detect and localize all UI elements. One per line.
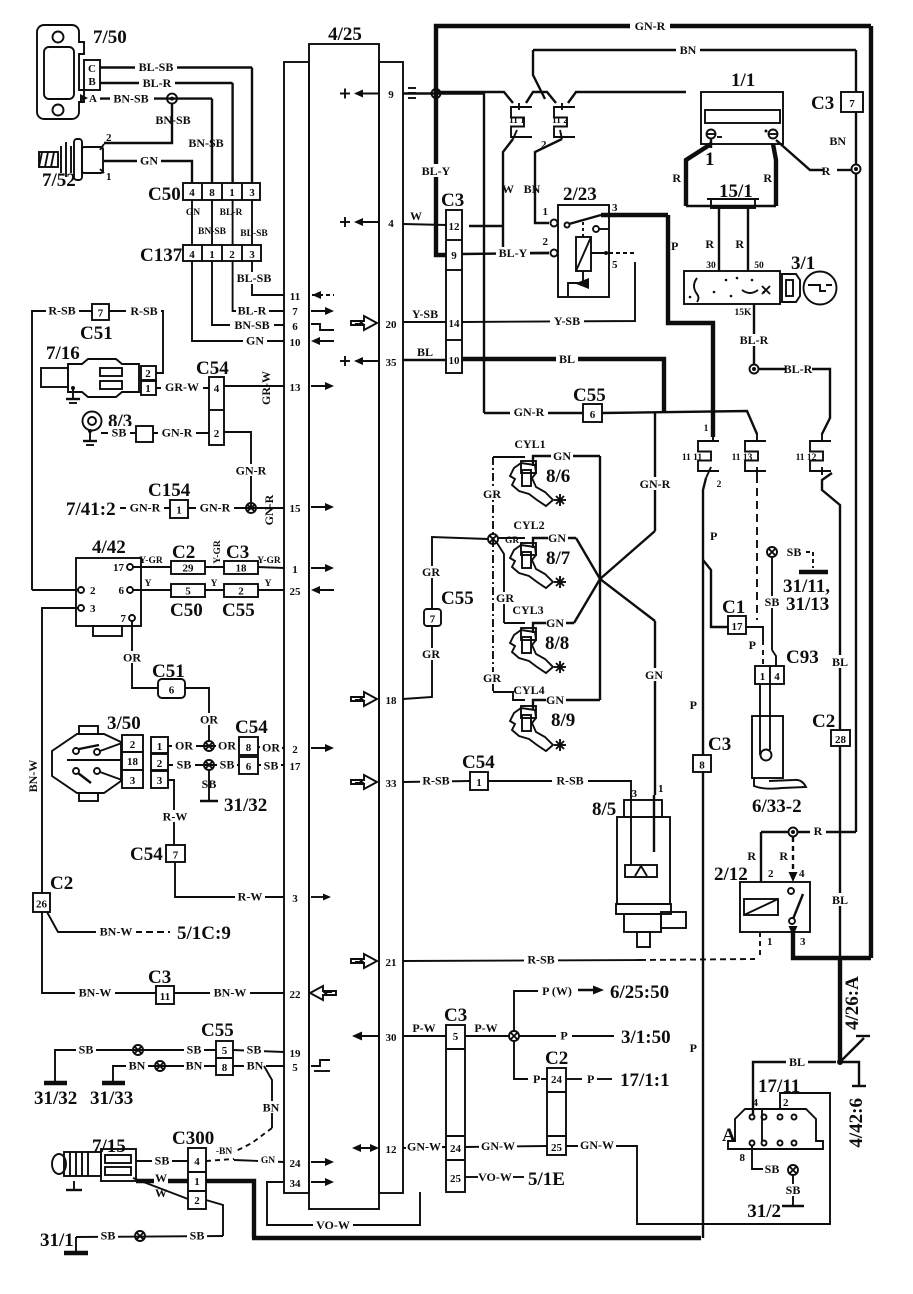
ECU 4/25 control unit inner box: [309, 44, 379, 1209]
svg-text:CYL2: CYL2: [513, 518, 544, 532]
svg-text:SB: SB: [247, 1043, 262, 1057]
svg-text:P: P: [690, 698, 697, 712]
svg-text:CYL4: CYL4: [513, 683, 544, 697]
connector C51 pin 7: [92, 304, 109, 320]
svg-text:C137: C137: [140, 245, 183, 266]
svg-text:SB: SB: [786, 1183, 801, 1197]
svg-text:CYL1: CYL1: [514, 437, 545, 451]
wire BN-W stub to 5/1C:9: [47, 912, 102, 932]
wire R-SB row with C51:7: [32, 311, 92, 590]
splice box: [136, 426, 153, 442]
svg-text:26: 26: [36, 899, 48, 911]
wire BL-R 7/50:B: [100, 82, 233, 84]
svg-text:1: 1: [292, 564, 298, 576]
svg-text:BL-Y: BL-Y: [499, 246, 528, 260]
svg-text:2: 2: [214, 428, 220, 440]
wire SB 7/15 to C300:4: [136, 1160, 188, 1162]
svg-text:GR: GR: [483, 487, 501, 501]
svg-text:C2: C2: [812, 711, 835, 732]
svg-text:31/1: 31/1: [40, 1230, 74, 1251]
svg-text:BL-R: BL-R: [238, 304, 267, 318]
svg-text:7: 7: [849, 98, 855, 110]
wire W 7/15 to C300:1: [136, 1179, 188, 1183]
wire BN-W down to C3:11 row: [42, 912, 156, 993]
connector C54 pin 8: [239, 737, 258, 755]
svg-text:33: 33: [386, 778, 398, 790]
antenna amplifier 6/33-2: [752, 684, 806, 789]
svg-text:3/50: 3/50: [107, 713, 141, 734]
wire SB to pin 17: [258, 764, 284, 766]
junction dot BN/R: [852, 165, 861, 174]
svg-text:12: 12: [386, 1144, 398, 1156]
svg-text:SB: SB: [787, 545, 802, 559]
svg-text:GN: GN: [261, 1156, 275, 1166]
wire GN-R main feed (top): [436, 26, 871, 98]
svg-text:7: 7: [430, 614, 436, 626]
wire P 2/23:3 down: [668, 215, 713, 437]
wire W thick C300:1 to bottom trunk: [206, 1181, 254, 1238]
7/50 terminal block C/B/A: [80, 60, 100, 105]
wires into C50 from above: [251, 68, 253, 184]
sensor 8/3: [83, 412, 102, 431]
svg-text:8/5: 8/5: [592, 799, 616, 820]
wire GN-R row through C55:6: [484, 412, 583, 414]
splice GR: [488, 534, 498, 544]
svg-text:24: 24: [450, 1143, 462, 1155]
svg-text:C55: C55: [222, 600, 255, 621]
svg-text:Y: Y: [211, 579, 218, 589]
svg-text:C3: C3: [444, 1005, 467, 1026]
svg-text:BL-R: BL-R: [740, 333, 769, 347]
connector C54 (4/2): [209, 377, 224, 445]
svg-text:SB: SB: [101, 1229, 116, 1243]
svg-text:OR: OR: [200, 713, 218, 727]
svg-text:11 2: 11 2: [552, 116, 568, 126]
svg-text:29: 29: [183, 563, 195, 575]
svg-text:GN-R: GN-R: [262, 494, 276, 525]
svg-text:2/23: 2/23: [563, 184, 597, 205]
wire BL down to junction: [838, 959, 842, 1062]
svg-text:C3: C3: [811, 93, 834, 114]
svg-text:GN: GN: [553, 449, 571, 463]
svg-text:C50: C50: [170, 600, 203, 621]
svg-text:34: 34: [290, 1178, 302, 1190]
wire SB splice down to ground 31/32: [208, 770, 210, 801]
splice SB / ground 31/11 31/13: [767, 547, 777, 557]
svg-text:R-SB: R-SB: [422, 774, 449, 788]
svg-text:P-W: P-W: [474, 1021, 497, 1035]
svg-text:3: 3: [612, 202, 618, 214]
svg-text:C3: C3: [708, 734, 731, 755]
svg-text:8/9: 8/9: [551, 710, 575, 731]
svg-text:GN: GN: [546, 616, 564, 630]
svg-text:20: 20: [386, 319, 398, 331]
wire BL-R to fuse 11/12: [758, 368, 785, 370]
wire drop to 7/52 pin 2: [104, 104, 172, 143]
svg-text:P (W): P (W): [542, 984, 572, 998]
svg-text:-BN: -BN: [216, 1147, 233, 1157]
wire R to 2/12:2: [760, 832, 762, 882]
connector C3 pin 18: [224, 561, 258, 574]
svg-text:OR: OR: [123, 651, 141, 665]
connector C3 pin 11: [156, 986, 174, 1004]
wire P through fuse 11/11 down: [703, 478, 706, 755]
svg-text:1: 1: [157, 741, 163, 753]
wire SB row 3/50:2 to C54:6: [168, 764, 239, 766]
svg-text:GN-R: GN-R: [162, 426, 193, 440]
svg-text:2: 2: [130, 739, 136, 751]
svg-text:22: 22: [290, 989, 302, 1001]
svg-text:9: 9: [451, 250, 457, 262]
svg-text:R-SB: R-SB: [527, 953, 554, 967]
svg-text:5: 5: [292, 1062, 298, 1074]
svg-text:1: 1: [209, 249, 215, 261]
svg-text:18: 18: [236, 563, 248, 575]
svg-text:19: 19: [290, 1048, 302, 1060]
svg-text:GN: GN: [645, 668, 663, 682]
wire GN-R right edge down: [869, 26, 873, 958]
battery 1/1: [701, 70, 783, 170]
svg-text:10: 10: [449, 355, 461, 367]
svg-text:30: 30: [386, 1032, 398, 1044]
svg-text:BL: BL: [832, 893, 848, 907]
wire R down right side to 2/12: [855, 173, 857, 832]
svg-text:10: 10: [290, 337, 302, 349]
svg-text:C50: C50: [148, 184, 181, 205]
connector C1 pin 17: [728, 616, 746, 634]
wire BL C2:28 down: [839, 746, 841, 959]
svg-text:3: 3: [249, 187, 255, 199]
fuse 11/13: [732, 433, 766, 475]
connector C55 pin 2: [224, 584, 258, 597]
svg-text:2: 2: [543, 236, 549, 248]
sensor 7/52: [39, 132, 112, 183]
wire between C2:29 and C3:18: [205, 566, 224, 568]
wire R-SB pin33 row: [403, 781, 470, 782]
svg-text:GR: GR: [483, 671, 501, 685]
svg-text:P: P: [749, 638, 756, 652]
svg-text:4: 4: [799, 868, 805, 880]
svg-text:BL-R: BL-R: [143, 76, 172, 90]
svg-text:P: P: [533, 1072, 540, 1086]
svg-text:BL-SB: BL-SB: [237, 271, 272, 285]
svg-text:1: 1: [705, 149, 715, 170]
svg-text:17/1:1: 17/1:1: [620, 1070, 670, 1091]
svg-text:GR: GR: [422, 647, 440, 661]
svg-text:28: 28: [835, 734, 847, 746]
svg-text:Y-GR: Y-GR: [139, 556, 163, 566]
svg-text:P: P: [710, 529, 717, 543]
connector C50 pin 5: [171, 584, 205, 597]
svg-text:24: 24: [551, 1074, 563, 1086]
svg-text:13: 13: [290, 382, 302, 394]
fuse 11/12: [796, 433, 831, 475]
svg-text:1: 1: [543, 206, 549, 218]
wire Y-GR 4/42:17 to C2:29: [133, 566, 171, 568]
relay 2/12: [714, 864, 810, 948]
svg-text:2: 2: [106, 132, 112, 144]
svg-text:Y-GR: Y-GR: [257, 556, 281, 566]
svg-text:GN: GN: [548, 531, 566, 545]
svg-text:31/13: 31/13: [786, 594, 829, 615]
svg-text:5: 5: [612, 259, 618, 271]
svg-text:50: 50: [754, 261, 764, 271]
wire SB 8/3: [101, 432, 136, 434]
wire 2/12:1 dashed down: [759, 932, 761, 958]
svg-text:R: R: [779, 849, 788, 863]
svg-text:A: A: [89, 93, 97, 105]
wire P-W C3:5 to splice: [465, 1035, 509, 1037]
svg-text:4: 4: [194, 1156, 200, 1168]
svg-text:VO-W: VO-W: [316, 1218, 350, 1232]
svg-text:W: W: [155, 1171, 167, 1185]
wire P(W) to 6/25:50: [514, 991, 538, 1031]
svg-text:5: 5: [453, 1031, 459, 1043]
svg-text:6/33-2: 6/33-2: [752, 796, 802, 817]
wire GN-W C2:25 loop to 17/11:2: [566, 1093, 830, 1224]
svg-text:1: 1: [176, 505, 182, 517]
svg-text:BN: BN: [263, 1101, 280, 1115]
svg-text:SB: SB: [190, 1229, 205, 1243]
svg-text:8/7: 8/7: [546, 548, 571, 569]
wire GN to coil 8/5 pin1: [654, 621, 656, 795]
wire R dashed to 2/12:4: [792, 837, 794, 872]
svg-text:3: 3: [800, 936, 806, 948]
svg-text:C3: C3: [441, 190, 464, 211]
connector C54 pin 7: [166, 845, 185, 862]
svg-text:GR: GR: [496, 591, 514, 605]
svg-text:21: 21: [386, 957, 397, 969]
pointer 4/42:6: [840, 1062, 859, 1085]
svg-text:9: 9: [388, 89, 394, 101]
connector C93: [755, 666, 784, 684]
svg-text:4: 4: [774, 671, 780, 683]
wire Y-SB pin20 to C3:14: [403, 321, 446, 323]
svg-text:SB: SB: [765, 595, 780, 609]
svg-text:7: 7: [292, 306, 298, 318]
svg-text:GN-W: GN-W: [407, 1140, 441, 1154]
svg-text:BN: BN: [524, 182, 541, 196]
svg-text:1: 1: [767, 936, 773, 948]
svg-text:4/26:A: 4/26:A: [842, 976, 863, 1030]
connector C3 pin 7: [841, 92, 863, 112]
svg-text:R: R: [705, 237, 714, 251]
svg-text:A: A: [722, 1125, 736, 1146]
throttle switch 3/50: [52, 713, 168, 801]
splice on GN-R: [246, 503, 256, 513]
svg-text:35: 35: [386, 357, 398, 369]
svg-text:C2: C2: [172, 542, 195, 563]
wire pin9 to GN-R branch: [403, 94, 484, 414]
fuse 11/13 lead down: [756, 475, 758, 620]
wire VO-W C3:25 to 5/1E: [465, 1176, 478, 1178]
svg-text:31/33: 31/33: [90, 1088, 133, 1109]
wire GN-R to C154: [120, 507, 170, 509]
svg-text:12: 12: [449, 221, 461, 233]
svg-text:C93: C93: [786, 647, 819, 668]
wire 4/42:2 to R-SB vertical: [32, 589, 78, 591]
connector C2 bottom: [545, 1048, 568, 1155]
svg-text:BL: BL: [789, 1055, 805, 1069]
splice junction on BN-SB: [167, 94, 177, 104]
svg-text:4: 4: [388, 218, 394, 230]
svg-text:1: 1: [658, 783, 664, 795]
wire SB 17/11:8 to ground 31/2: [752, 1146, 763, 1169]
svg-text:1: 1: [229, 187, 235, 199]
svg-text:4/42: 4/42: [92, 537, 126, 558]
svg-text:17/11: 17/11: [758, 1076, 800, 1097]
svg-text:8: 8: [222, 1062, 228, 1074]
svg-text:BN-W: BN-W: [26, 760, 40, 793]
connector C50: [183, 183, 260, 200]
svg-text:GR: GR: [422, 565, 440, 579]
svg-text:7: 7: [121, 613, 127, 625]
svg-text:8/6: 8/6: [546, 466, 570, 487]
wire BN from top to junction: [855, 50, 857, 92]
svg-text:11: 11: [160, 991, 170, 1003]
svg-text:GN-R: GN-R: [130, 501, 161, 515]
svg-text:18: 18: [127, 756, 139, 768]
svg-text:8: 8: [246, 742, 252, 754]
svg-text:7/16: 7/16: [46, 343, 80, 364]
wire 4/42:3 BN-W down: [42, 608, 78, 893]
svg-text:11: 11: [290, 291, 300, 303]
svg-text:C55: C55: [573, 385, 606, 406]
svg-text:25: 25: [290, 586, 302, 598]
svg-text:GN: GN: [140, 154, 158, 168]
svg-text:Y-GR: Y-GR: [213, 540, 223, 564]
svg-text:OR: OR: [175, 739, 193, 753]
svg-text:17: 17: [113, 562, 125, 574]
svg-text:11 1: 11 1: [509, 116, 525, 126]
svg-text:6: 6: [119, 585, 125, 597]
svg-text:31/32: 31/32: [34, 1088, 77, 1109]
wire OR C51:6 down to splice: [185, 688, 209, 741]
svg-text:SB: SB: [264, 759, 279, 773]
svg-text:31/32: 31/32: [224, 795, 267, 816]
svg-text:BL-SB: BL-SB: [139, 60, 174, 74]
ground 31/33: [102, 1081, 125, 1085]
svg-text:GN-R: GN-R: [236, 464, 267, 478]
svg-text:SB: SB: [112, 426, 127, 440]
wire OR row 3/50:1 to C54:8: [168, 745, 239, 747]
X junction of GN wires: [599, 456, 601, 700]
ECU 4/25 right connector strip: [379, 62, 403, 1193]
svg-text:W: W: [410, 209, 422, 223]
svg-text:C154: C154: [148, 480, 191, 501]
wire OR 4/42:7 down to C51:6: [132, 621, 158, 688]
svg-text:CYL3: CYL3: [512, 603, 543, 617]
svg-text:7: 7: [173, 850, 179, 862]
wire VO-W bottom run to pin 34: [267, 1182, 420, 1225]
svg-text:GR-W: GR-W: [259, 371, 273, 405]
relay 2/23 fuel pump: [543, 184, 669, 297]
wire pin4 W to C3:12: [403, 224, 446, 225]
wire BL 2/12:3 to right edge: [793, 932, 871, 958]
svg-text:4: 4: [189, 187, 195, 199]
svg-text:3: 3: [632, 788, 638, 800]
wire P-W pin30 to C3:5: [403, 1035, 446, 1037]
pointer 4/26:A: [840, 1038, 864, 1062]
connector C137: [183, 245, 261, 261]
wire BL-R switch down: [753, 304, 755, 364]
svg-text:C1: C1: [722, 597, 745, 618]
svg-text:C3: C3: [226, 542, 249, 563]
svg-text:R: R: [747, 849, 756, 863]
svg-text:17: 17: [732, 621, 744, 633]
svg-text:1/1: 1/1: [731, 70, 755, 91]
wire between C50:5 and C55:2: [205, 589, 224, 591]
svg-text:25: 25: [551, 1142, 563, 1154]
fuse 11/1: [509, 103, 532, 139]
svg-text:R-W: R-W: [238, 890, 263, 904]
wire P to C2:24 / 17/1:1: [514, 1041, 528, 1079]
svg-text:R: R: [814, 824, 823, 838]
svg-text:5: 5: [185, 586, 191, 598]
svg-text:2: 2: [783, 1097, 789, 1109]
wire GN-R C54:2 down to C154 splice: [224, 432, 251, 508]
svg-text:4/42:6: 4/42:6: [846, 1098, 867, 1148]
svg-text:OR: OR: [262, 741, 280, 755]
svg-text:W: W: [155, 1186, 167, 1200]
wire BL fuse 11/12 to C2:28: [822, 473, 840, 730]
wire SB splice to C93:4: [771, 557, 773, 650]
svg-text:6: 6: [292, 321, 298, 333]
wire R battery right to 15/1: [773, 144, 776, 206]
wire BN branch down to C300: [264, 1066, 272, 1128]
ignition coil / pump 8/5: [592, 783, 686, 947]
wire GR-W 7/16:1 to C54:4: [156, 387, 209, 389]
wire GR dash-dot harness: [492, 457, 494, 539]
svg-text:OR: OR: [218, 739, 236, 753]
svg-text:GR-W: GR-W: [165, 380, 199, 394]
svg-text:C300: C300: [172, 1128, 214, 1149]
svg-text:R-SB: R-SB: [130, 304, 157, 318]
svg-text:1: 1: [476, 777, 482, 789]
svg-text:SB: SB: [202, 777, 217, 791]
svg-text:8: 8: [209, 187, 215, 199]
svg-text:C54: C54: [462, 752, 495, 773]
svg-text:GN: GN: [546, 693, 564, 707]
svg-text:11 13: 11 13: [732, 453, 753, 463]
wire C300:4 to pin 24: [206, 1159, 234, 1161]
wire Y 4/42:6 to C50:5: [133, 589, 171, 591]
svg-text:P: P: [587, 1072, 594, 1086]
wire W 7/15 to C300:2: [133, 1178, 188, 1199]
svg-text:3: 3: [249, 249, 255, 261]
wire BN-SB 7/50:A: [100, 97, 212, 99]
svg-text:R-SB: R-SB: [48, 304, 75, 318]
svg-text:BN-SB: BN-SB: [198, 227, 227, 237]
wire SB row to pin 19: [55, 1050, 78, 1081]
svg-text:R: R: [763, 171, 772, 185]
svg-text:4: 4: [214, 383, 220, 395]
wire P fork to C1:17: [703, 560, 728, 627]
svg-text:24: 24: [290, 1158, 302, 1170]
svg-text:5/1C:9: 5/1C:9: [177, 923, 231, 944]
control module 4/42: [76, 537, 141, 636]
svg-text:1: 1: [760, 671, 766, 683]
bottom trunk wire (lambda heater feed): [252, 1236, 701, 1240]
svg-text:VO-W: VO-W: [478, 1170, 512, 1184]
wire GN-W C3:24 to C2:25: [465, 1146, 547, 1147]
svg-text:2: 2: [717, 480, 722, 490]
wire GR loop via C55:7 to pin 18: [432, 537, 488, 609]
wire BN fuse 11/2 down to 2/23:1: [535, 139, 562, 223]
wire Y-SB C3:14 to 2/23 coil: [462, 262, 635, 322]
svg-text:4: 4: [753, 1097, 759, 1109]
wire R battery to BN junction: [776, 140, 823, 170]
